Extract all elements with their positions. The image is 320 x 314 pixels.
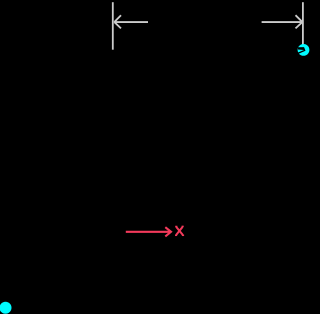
left extension line xyxy=(112,2,114,50)
x axis arrow (red) xyxy=(126,227,171,236)
vertex marker (bottom left cyan dot) xyxy=(0,302,12,314)
right extension line xyxy=(302,2,304,47)
left dimension arrow (pointing left) xyxy=(114,15,148,28)
black glyph mark inside top-right dot xyxy=(298,47,306,54)
right dimension arrow (pointing right) xyxy=(262,15,303,28)
vertex marker (top right cyan dot) xyxy=(298,44,310,56)
x axis label (italic x drawn as strokes) xyxy=(176,227,183,235)
